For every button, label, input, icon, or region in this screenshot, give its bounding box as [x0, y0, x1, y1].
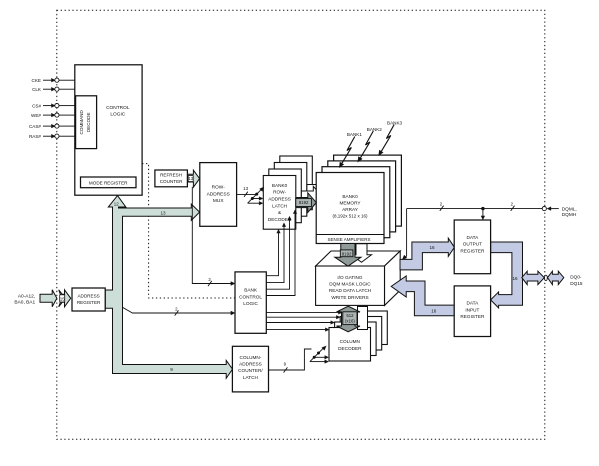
- svg-text:MODE REGISTER: MODE REGISTER: [89, 180, 128, 185]
- svg-text:MUX: MUX: [213, 198, 224, 204]
- svg-text:BANK: BANK: [244, 288, 258, 293]
- svg-text:15: 15: [60, 296, 65, 301]
- svg-text:SENSE AMPLIFIERS: SENSE AMPLIFIERS: [327, 237, 370, 242]
- svg-text:CKE: CKE: [32, 78, 41, 83]
- svg-text:DQML,: DQML,: [562, 206, 577, 211]
- svg-text:ADDRESS: ADDRESS: [77, 293, 99, 298]
- svg-text:12: 12: [114, 201, 119, 206]
- svg-text:COLUMN: COLUMN: [340, 339, 360, 344]
- svg-text:8192: 8192: [299, 200, 309, 205]
- svg-text:A0-A12,: A0-A12,: [18, 294, 35, 300]
- svg-text:CONTROL: CONTROL: [106, 105, 130, 111]
- svg-text:ADDRESS: ADDRESS: [207, 191, 230, 197]
- svg-text:DQMH: DQMH: [562, 212, 576, 217]
- svg-text:DECODER: DECODER: [338, 346, 362, 351]
- svg-text:9: 9: [170, 367, 173, 372]
- svg-text:WRITE DRIVERS: WRITE DRIVERS: [331, 295, 368, 300]
- svg-text:BANK0: BANK0: [342, 194, 358, 199]
- svg-text:REFRESH: REFRESH: [160, 172, 182, 177]
- svg-text:WE#: WE#: [31, 113, 41, 118]
- svg-text:MEMORY: MEMORY: [339, 201, 361, 206]
- svg-text:COUNTER/: COUNTER/: [238, 368, 263, 373]
- svg-text:LATCH: LATCH: [243, 375, 258, 380]
- svg-text:I/O GATING: I/O GATING: [337, 275, 363, 280]
- svg-text:DQM MASK LOGIC: DQM MASK LOGIC: [329, 282, 371, 287]
- svg-text:INPUT: INPUT: [465, 307, 479, 312]
- svg-text:ADDRESS: ADDRESS: [268, 197, 291, 202]
- svg-text:16: 16: [431, 309, 437, 314]
- svg-text:ADDRESS: ADDRESS: [239, 362, 262, 367]
- svg-text:DQ0-: DQ0-: [570, 274, 582, 279]
- svg-text:8192: 8192: [342, 251, 352, 256]
- svg-text:DQ15: DQ15: [570, 281, 583, 286]
- svg-text:LATCH: LATCH: [272, 203, 287, 208]
- svg-text:13: 13: [188, 176, 193, 181]
- svg-text:READ DATA LATCH: READ DATA LATCH: [329, 288, 371, 293]
- svg-text:BANK3: BANK3: [387, 121, 403, 126]
- svg-text:ROW-: ROW-: [212, 185, 226, 191]
- svg-text:BA0, BA1: BA0, BA1: [14, 300, 35, 306]
- svg-text:CLK: CLK: [32, 87, 42, 92]
- svg-text:LOGIC: LOGIC: [110, 112, 125, 118]
- svg-text:16: 16: [429, 245, 435, 250]
- svg-text:CONTROL: CONTROL: [239, 294, 262, 299]
- svg-text:REGISTER: REGISTER: [77, 300, 101, 305]
- svg-text:(8,192x 512 x 16): (8,192x 512 x 16): [332, 214, 368, 219]
- svg-text:DATA: DATA: [466, 301, 479, 306]
- svg-text:13: 13: [160, 210, 166, 215]
- svg-text:16: 16: [512, 276, 518, 281]
- svg-text:REGISTER: REGISTER: [460, 248, 485, 253]
- svg-text:BANK1: BANK1: [347, 132, 363, 137]
- svg-text:LOGIC: LOGIC: [243, 301, 258, 306]
- svg-text:COLUMN-: COLUMN-: [239, 355, 261, 360]
- svg-text:REGISTER: REGISTER: [460, 314, 485, 319]
- svg-text:DECODE: DECODE: [86, 112, 91, 132]
- svg-text:(x16): (x16): [345, 319, 355, 324]
- svg-text:ARRAY: ARRAY: [342, 207, 359, 212]
- svg-text:COUNTER: COUNTER: [160, 179, 183, 184]
- svg-text:BANK0: BANK0: [272, 183, 288, 188]
- svg-text:OUTPUT: OUTPUT: [463, 242, 482, 247]
- svg-text:COMMAND: COMMAND: [79, 109, 84, 134]
- svg-text:13: 13: [243, 186, 248, 191]
- svg-text:512: 512: [346, 313, 354, 318]
- svg-text:DATA: DATA: [466, 235, 479, 240]
- svg-text:CAS#: CAS#: [29, 124, 41, 129]
- svg-text:CS#: CS#: [32, 103, 41, 108]
- svg-text:RAS#: RAS#: [29, 134, 41, 139]
- svg-text:BANK2: BANK2: [367, 127, 383, 132]
- svg-text:ROW-: ROW-: [273, 190, 286, 195]
